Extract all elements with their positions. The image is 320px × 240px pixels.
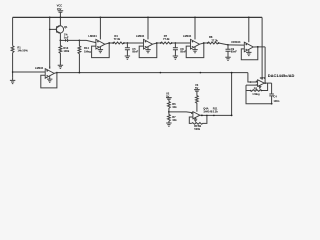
ground U3 — [145, 47, 150, 53]
wire U5 out drop — [264, 47, 266, 83]
wire U4 output — [200, 42, 208, 44]
wire rail drop right — [261, 17, 263, 79]
svg-text:77.3k: 77.3k — [114, 37, 121, 41]
feedback box U2 — [92, 43, 110, 58]
svg-text:1N4148: 1N4148 — [203, 109, 213, 113]
op-amp U4 — [183, 17, 200, 50]
svg-text:100n: 100n — [273, 99, 279, 103]
svg-text:1 Meg: 1 Meg — [252, 92, 260, 96]
ground U4 — [192, 47, 197, 53]
op-amp U3 — [136, 17, 153, 50]
svg-text:DAC1445c/AD: DAC1445c/AD — [268, 73, 295, 78]
power supply V1 5V — [57, 4, 64, 18]
op-amp U2 — [88, 17, 105, 50]
resistor R2 1Meg feedback — [246, 83, 268, 96]
wire C5 to U3 — [127, 42, 143, 44]
resistor R6 10k — [167, 101, 177, 112]
svg-text:1Meg: 1Meg — [84, 49, 91, 53]
ground U2 — [98, 47, 103, 53]
wire bottom-right return — [246, 91, 273, 105]
svg-text:LM034: LM034 — [136, 34, 145, 38]
svg-text:OP1: OP1 — [260, 76, 266, 80]
resistor R7 10k — [167, 112, 177, 123]
svg-text:LM034: LM034 — [88, 34, 97, 38]
svg-text:R2: R2 — [254, 87, 258, 91]
svg-text:85nF: 85nF — [231, 50, 237, 54]
wire U6 output — [200, 115, 232, 117]
wire Q1 base drop — [49, 17, 57, 30]
wire left branch — [12, 17, 14, 78]
label D3 1N4148 — [203, 106, 213, 113]
ground U5 — [246, 50, 251, 56]
wire node to U2 input — [79, 40, 96, 42]
node R6-R7 — [168, 111, 170, 113]
wire OP1 output — [264, 82, 271, 84]
feedback box U3 — [139, 43, 157, 58]
resistor R14 1Meg — [78, 40, 91, 72]
svg-text:100k: 100k — [63, 49, 69, 53]
svg-text:15V: 15V — [57, 7, 62, 11]
feedback box U1 — [41, 73, 57, 88]
node rail-Q1base — [49, 17, 51, 19]
wire U1 output bus — [54, 72, 248, 74]
capacitor C8 85nF — [173, 42, 187, 56]
ground R13 — [58, 65, 63, 68]
wire U1 input — [12, 71, 45, 73]
node rail-V1 — [60, 17, 62, 19]
feedback box U4 — [186, 43, 204, 58]
svg-text:77.3k: 77.3k — [163, 37, 170, 41]
resistor R1 14k — [11, 46, 28, 53]
op-amp U1 — [35, 66, 54, 78]
ground U1 — [47, 76, 52, 82]
wire C9 to U5 — [228, 44, 244, 46]
capacitor C5 85nF — [125, 42, 139, 56]
svg-text:500k: 500k — [194, 127, 200, 131]
op-amp U5 — [231, 17, 253, 52]
wire U5 output — [253, 46, 265, 48]
node emitter — [60, 40, 62, 42]
svg-text:C4: C4 — [273, 94, 277, 98]
feedback box U5 — [241, 47, 258, 60]
node diode-R14 — [79, 40, 81, 42]
svg-text:10k: 10k — [172, 118, 177, 122]
svg-text:85nF: 85nF — [132, 50, 138, 54]
ground left — [10, 78, 15, 84]
svg-text:5uF: 5uF — [64, 36, 69, 40]
resistor R4 77.3k — [112, 34, 127, 44]
ground C9 — [225, 57, 230, 60]
svg-text:CD034: CD034 — [231, 40, 240, 44]
svg-text:LM034: LM034 — [183, 34, 192, 38]
label R11 2.2k — [213, 106, 219, 113]
wire Q1 to U1 power — [49, 29, 51, 68]
capacitor C4 100n — [269, 83, 279, 104]
label DAC1445c/AD — [268, 73, 295, 78]
svg-text:LM034: LM034 — [35, 66, 44, 70]
wire riser to bus — [231, 72, 233, 117]
power supply V2 5V — [166, 91, 172, 101]
ground U6 — [194, 118, 197, 122]
resistor R10 500k feedback — [189, 115, 207, 130]
wire U2 output — [105, 42, 113, 44]
wire to G input — [169, 111, 193, 114]
wire C8 to U4 — [175, 42, 190, 44]
resistor R13 100k — [59, 40, 70, 65]
svg-text:2.2k: 2.2k — [213, 109, 219, 113]
wire bus drop to F input — [248, 73, 258, 83]
wire top rail — [13, 16, 263, 18]
ground R7 — [166, 123, 171, 126]
ground C8 — [173, 56, 178, 59]
op-amp OP1 — [256, 76, 266, 86]
op-amp U6 — [191, 112, 200, 119]
capacitor C1 5uF — [60, 33, 79, 42]
capacitor C9 85nF — [226, 44, 238, 57]
resistor R8 77.3k — [207, 35, 228, 45]
ground C5 — [125, 56, 130, 59]
svg-text:Q1: Q1 — [64, 25, 68, 29]
transistor Q1 — [56, 17, 68, 40]
power supply V3 5V — [194, 83, 200, 112]
resistor R7 77.3k — [160, 34, 176, 44]
svg-text:14k 50%: 14k 50% — [17, 49, 28, 53]
svg-text:R8: R8 — [209, 35, 213, 39]
svg-text:77.3k: 77.3k — [211, 38, 218, 42]
svg-text:10k: 10k — [172, 105, 177, 109]
wire U3 output — [153, 42, 161, 44]
ground OP1 — [258, 85, 261, 88]
